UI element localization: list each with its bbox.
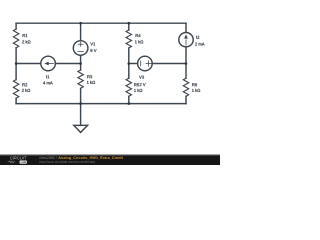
wire R4 bottom lead [128,48,130,64]
node left mid junction [15,62,18,65]
label R2 [22,83,27,86]
voltage source V3 [138,56,153,71]
label R1 [23,34,28,37]
wire R3 top lead [80,64,82,71]
node V1 top junction [79,22,82,25]
wire left rail lower lead [15,98,17,103]
wire right rail top lead [185,23,187,32]
label R5 [134,83,139,86]
wire R3 bottom lead [80,88,82,103]
footer text [40,156,123,163]
label I2 [196,36,199,39]
wire left rail middle [15,48,17,80]
wire I1 to node A [55,63,80,65]
resistor R3 [78,70,83,88]
resistor R6 [183,78,188,96]
wire middle left segment [16,63,41,65]
label R4 [136,34,141,37]
wire I2 to node C [185,47,187,64]
wire bottom rail [16,103,186,105]
node B junction [128,62,131,65]
label I1 [46,75,49,78]
wire R6 bottom lead [185,96,187,103]
label R3 [87,75,92,78]
node R4 top junction [128,22,131,25]
node A junction [79,62,82,65]
wire V1 branch top lead [80,23,82,41]
wire R5 top lead [128,64,130,79]
wire top rail [16,22,186,24]
wire node B to V3 [129,63,138,65]
current source I2 [179,33,193,47]
wire R6 top lead [185,64,187,79]
resistor R4 [126,30,131,48]
wire R5 bottom lead [128,96,130,103]
wire R4 branch top lead [128,23,130,30]
resistor R5 [126,78,131,96]
wire V3 to right rail [152,63,186,65]
label V1 [90,43,95,46]
voltage source V1 [73,41,88,56]
node R5 bottom junction [128,102,131,105]
wire V1 bottom lead [80,55,82,63]
node C junction [185,62,188,65]
node ground junction [79,102,82,105]
logo CircuitLab [8,157,27,164]
resistor R1 [13,29,18,48]
label R6 [192,83,197,86]
label V3 [139,76,144,79]
ground [80,104,82,126]
current source I1 [41,56,56,71]
resistor R2 [13,80,18,99]
wire left rail upper lead [15,23,17,29]
